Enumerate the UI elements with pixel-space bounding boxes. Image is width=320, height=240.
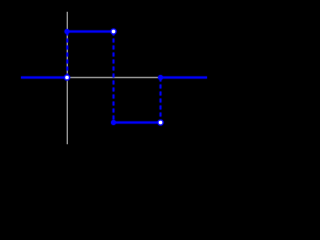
y-axis [66,12,68,145]
wire zero-level right segment [161,77,208,79]
closed endpoint (0, high) [65,29,70,34]
wire glow layer [21,29,207,125]
open endpoint white blooms [65,30,162,124]
open endpoint (T/2, high) [111,29,116,34]
dashed jump at x=T/2 [113,32,115,123]
dashed jump at x=0 [66,32,68,78]
x-axis [21,77,207,79]
dashed jump at x=T [160,78,162,123]
closed endpoint (T/2, low) [111,120,116,125]
open endpoint (T, low) [158,120,163,125]
wire low-level segment [114,122,161,124]
wire high-level segment [67,31,114,33]
closed endpoint (T, zero) [158,75,163,80]
wire zero-level left segment [21,77,67,79]
open endpoint (0, zero) [65,75,70,80]
